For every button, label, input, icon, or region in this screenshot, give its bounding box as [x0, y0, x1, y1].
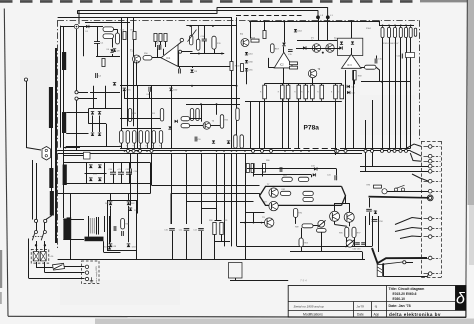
wire c4 rise273: [428, 274, 429, 277]
transformer T1 secondary winding S1: [62, 52, 66, 70]
wire J1 pin lead y166.2: [424, 166, 429, 168]
connector J1 outline top: [422, 141, 442, 143]
wire b2 h118: [120, 118, 160, 120]
junction T7T8: [322, 52, 324, 54]
P78a board outline top edge: [58, 20, 420, 22]
wire b2 h126: [190, 125, 204, 127]
junction bus x186: [185, 150, 187, 152]
op-amp IC1: [161, 45, 178, 67]
wire a3 h101: [245, 101, 342, 103]
wire J1 pin lead y228.4: [424, 228, 429, 230]
trimmer P1: [382, 189, 387, 194]
wire heavy output: [372, 248, 427, 263]
wire r80 drop: [214, 235, 216, 260]
terminal TB1 N: [85, 271, 88, 274]
wire bridge2 v88: [88, 109, 90, 124]
wire fuse a out: [36, 262, 38, 267]
connector J1 outline bottom: [422, 277, 442, 279]
wire v216 lower: [216, 153, 218, 220]
junction sense column x382.5: [382, 25, 384, 27]
wire aux v83: [83, 27, 85, 57]
wire a2 v204 tail: [204, 41, 206, 54]
wire v224 lower: [224, 153, 226, 246]
wire IC3 base to R69: [361, 67, 365, 69]
transistor T12 (power): [344, 212, 354, 222]
resistor R4: [102, 59, 105, 67]
wire divider row drop x298.8: [298, 99, 300, 149]
wire divider row top stub x335.5: [335, 84, 337, 86]
junction sense column x389: [388, 25, 390, 27]
wire b2 h104: [186, 104, 240, 106]
wire J1 pin lead y181.2: [424, 181, 429, 183]
wire sec2 tap top: [66, 112, 88, 114]
wire b3 v245: [245, 153, 247, 260]
wire J1 pin lead y236.6: [424, 236, 429, 238]
resistor R88 (pill): [303, 191, 313, 195]
P78a board outline right edge: [419, 20, 421, 141]
wire T4 to R55: [211, 125, 221, 127]
wire a2 top right: [186, 25, 236, 27]
relay K1 lever: [383, 262, 402, 264]
junction bus x285: [284, 150, 286, 152]
wire main bus upper dashes (board edge): [285, 148, 340, 150]
diode D60: [109, 202, 113, 205]
svg-text:E030-10: E030-10: [393, 297, 406, 301]
wire d62 v: [128, 193, 130, 200]
wire C9 feed: [179, 66, 181, 68]
terminal aux t2: [75, 91, 78, 94]
resistor R82 (pill): [280, 191, 290, 195]
svg-text:IC 3: IC 3: [347, 64, 352, 67]
resistor R103 (sense column pill): [399, 27, 402, 37]
wire bridge2 top: [89, 108, 123, 110]
wire b3 h169: [247, 168, 337, 170]
wire b2 v216: [216, 104, 218, 115]
capacitor C11 filter: [184, 228, 190, 230]
wire R1-R3 link: [114, 29, 118, 31]
terminal aux t3: [75, 97, 78, 100]
resistor R11: [133, 32, 136, 40]
wire secondary S3-S4 link: [63, 185, 65, 218]
wire aux t2 stub: [78, 92, 88, 94]
wire t12 em drop: [354, 238, 356, 247]
wire r80 top link: [215, 220, 222, 222]
title block divider v app col: [371, 302, 373, 317]
wire screened segment: [236, 15, 302, 17]
diode D61a: [89, 165, 93, 168]
wire IC2 apex up: [283, 47, 285, 53]
wire J1 pin lead y218.6: [424, 218, 429, 220]
wire c4 v372: [372, 216, 374, 246]
wire a3 v345: [345, 70, 347, 148]
terminal bus right x382: [381, 149, 384, 152]
wire fan y208: [201, 208, 217, 210]
capacitor C16b: [375, 59, 377, 64]
resistor R68: [353, 71, 356, 81]
svg-text:Modifications: Modifications: [303, 313, 323, 317]
junction sense column x410.7: [410, 25, 412, 27]
wire mains lead to plug: [26, 148, 41, 151]
wire b3 v253: [253, 164, 255, 177]
border left: [4, 9, 8, 317]
connector J1 pin y161.2: [428, 159, 432, 163]
resistor R36 (divider row): [320, 85, 324, 99]
wire a3 v335 long: [335, 101, 337, 155]
wire divider row top stub x298.8: [298, 84, 300, 86]
wire sec tap 155: [63, 155, 83, 157]
wire sec tap 219: [63, 219, 84, 221]
terminal bus x337.5: [336, 149, 339, 152]
wire secondary top tap: [63, 27, 65, 53]
wire row2 stub R40: [121, 143, 123, 148]
wire mains lead2 down: [32, 160, 34, 220]
wire h191: [384, 191, 429, 193]
wire v137 lower: [137, 153, 139, 213]
wire row2 stub R45: [153, 143, 155, 148]
wire c50 dn: [113, 174, 115, 184]
wire sense column stub x410.7: [410, 25, 412, 27]
relay K1 coil: [377, 265, 382, 277]
terminal bus right x372: [371, 149, 374, 152]
wire aux low h: [90, 92, 120, 94]
wire C1 top lead: [97, 27, 99, 42]
wire a2 v231c: [231, 71, 233, 149]
resistor R34 (divider row): [304, 85, 308, 99]
wire divider row stub-down x305.7: [305, 99, 307, 102]
junction sec tap 147: [65, 147, 67, 149]
capacitor C62: [355, 243, 360, 245]
wire T9 tail: [312, 78, 314, 84]
wire T12 feed: [349, 203, 351, 212]
connector J1 pin y218.6: [428, 217, 432, 221]
wire c2 v107: [107, 201, 109, 251]
connector J1 pin stub y181.2: [432, 181, 440, 183]
wire sense column stub x400.8: [400, 25, 402, 27]
wire R3 feed: [117, 29, 119, 33]
junction a3 top a: [249, 20, 251, 22]
wire c2 bridge bottom: [107, 250, 137, 252]
wire mains lead down: [26, 81, 28, 147]
wire divider row drop x288.1: [288, 99, 290, 149]
wire r81 h: [215, 241, 231, 243]
wire top-left terminal riser: [77, 10, 79, 14]
resistor R80: [213, 223, 216, 235]
wire main bus upper right: [340, 148, 411, 150]
resistor R51 (pill): [160, 109, 163, 122]
terminal bus right x389: [388, 149, 391, 152]
junction a2 h86 b: [236, 85, 238, 87]
wire fan y193: [171, 193, 260, 195]
title block divider v date col: [353, 302, 355, 317]
border top gray segment right: [420, 0, 467, 2]
terminal bus x262: [261, 149, 264, 152]
wire IC1 base v: [178, 52, 180, 67]
wire a2 v231: [231, 17, 233, 61]
wire aux supply top: [61, 26, 103, 28]
wire fan y193 elbow: [170, 193, 172, 224]
diode D41: [339, 46, 342, 49]
terminal primary out: [44, 219, 47, 222]
resistor R14: [164, 34, 167, 42]
diode D45: [347, 85, 350, 88]
wire left sense drop to terminal: [78, 10, 80, 24]
wire bridge mid: [85, 173, 107, 175]
wire vert a2-1: [121, 17, 123, 148]
transistor T1: [133, 55, 141, 63]
terminal TB1 E: [85, 277, 88, 280]
capacitor C51: [118, 172, 124, 174]
resistor R32 (divider row): [286, 85, 290, 99]
wire primary link: [51, 128, 53, 168]
connector J1 outline left: [421, 141, 423, 278]
wire J1 pin lead y191.2: [424, 191, 429, 193]
wire d60 v: [110, 193, 112, 200]
svg-text:R105 R106 R107: R105 R106 R107: [383, 43, 399, 45]
wire zig pin3: [410, 153, 421, 161]
diode D20: [169, 88, 172, 91]
wire a2 v236: [236, 17, 238, 148]
capacitor C14: [158, 45, 160, 50]
scan mottle patch d: [60, 280, 180, 305]
capacitor C58: [372, 220, 378, 222]
transformer T1 core line left: [55, 48, 57, 243]
wire divider row top stub x312.4: [312, 84, 314, 86]
junction a4 h82: [381, 81, 383, 83]
diode D63: [127, 244, 131, 247]
capacitor C41: [335, 175, 337, 180]
wire D6 feed: [112, 39, 114, 48]
border bottom: [8, 316, 466, 317]
wire a2 h66: [178, 66, 232, 68]
wire C16b feed: [376, 56, 378, 59]
ground symbol earth: [90, 277, 93, 282]
svg-text:Date: Jan ’78: Date: Jan ’78: [389, 304, 411, 308]
wire t2 right down: [103, 241, 105, 252]
wire IC2 base left: [268, 58, 270, 68]
connector J1 pin heavy ring: [427, 195, 433, 201]
junction bus x293: [292, 150, 294, 152]
transformer T2 core b: [98, 217, 100, 235]
terminal bus x271: [270, 149, 273, 152]
terminal bus x253: [252, 149, 255, 152]
connector J1 pin heavy: [429, 196, 432, 199]
connector J1 pin stub y171.3: [432, 171, 440, 173]
connector J1 pin stub y161.2: [432, 161, 440, 163]
wire v186 lower: [186, 153, 188, 224]
resistor R102 (sense column pill): [394, 27, 397, 37]
wire D34 feed: [284, 21, 286, 42]
resistor R71: [290, 66, 298, 69]
resistor row2 pill R45: [152, 131, 155, 144]
wire c11 drop: [186, 231, 188, 260]
transformer T1 secondary winding S3: [63, 165, 67, 186]
wire c1 v104: [104, 216, 106, 232]
resistor R24: [251, 39, 259, 42]
switch S1 tie bar: [32, 236, 41, 238]
junction collector bus x261.5: [261, 222, 263, 224]
wire top sense lower: [78, 13, 218, 15]
wire fuse b out: [44, 262, 46, 273]
wire t11 to pill: [335, 225, 347, 227]
connector J1 pin y258.0: [428, 256, 432, 260]
wire C4 loop left: [157, 49, 159, 58]
wire output bus: [237, 246, 372, 248]
wire zig out1: [395, 218, 422, 225]
resistor R17 (pill): [197, 39, 200, 50]
wire c2 bridge vright: [128, 208, 130, 242]
wire R13 lead: [160, 42, 162, 46]
transistor T8b (driver): [269, 201, 278, 210]
wire a3 v250: [250, 21, 252, 38]
resistor R96e (emitter pill): [345, 227, 349, 237]
title block outer frame: [288, 286, 466, 318]
wire R12 lead: [155, 42, 157, 48]
transistor T9: [308, 69, 316, 77]
wire R14 lead: [165, 42, 167, 48]
resistor R94 (pill): [299, 238, 303, 247]
junction a3 top c: [283, 20, 285, 22]
wire sw b: [44, 223, 46, 231]
wire sec tap 239: [63, 239, 84, 241]
wire sense column stub x395: [395, 25, 397, 27]
trimmer P3: [346, 240, 355, 247]
diode D62: [127, 202, 131, 205]
resistor R105 (sense column pill): [409, 27, 412, 37]
wire divider row drop x264.6: [264, 99, 266, 149]
resistor R69 (pill): [365, 65, 377, 69]
capacitor C6: [195, 137, 197, 142]
junction b2 h104 b: [216, 103, 218, 105]
wire b2 v201: [201, 104, 203, 121]
svg-text:App: App: [374, 313, 380, 317]
wire divider row top stub x341.8: [341, 84, 343, 86]
wire a2 v204 stub: [204, 26, 206, 39]
resistor R59 (pill): [240, 135, 243, 148]
wire row2 stub R42: [134, 143, 136, 148]
diode D55b: [98, 111, 101, 114]
trimmer P1 arrow: [188, 30, 197, 42]
diode D40: [303, 46, 306, 49]
wire v171 lower: [171, 153, 173, 224]
wire main bus middle: [58, 150, 411, 152]
wire fan y213: [245, 212, 265, 214]
junction b2 h104 a: [200, 103, 202, 105]
wire C40a tail: [149, 92, 151, 99]
connector J1 pin stub y228.4: [432, 228, 440, 230]
wire bridge v88: [86, 163, 88, 184]
junction bus x201: [200, 150, 202, 152]
connector J1 pin y236.6: [428, 235, 432, 239]
wire R89 to P2: [313, 225, 318, 227]
diode clamp box: [338, 38, 363, 55]
wire a4 v372: [372, 100, 374, 166]
diode D55a: [91, 111, 94, 114]
connector J1 pin y156.2: [428, 154, 432, 158]
diode D6: [110, 49, 113, 52]
wire c52 up: [129, 163, 131, 172]
wire sec tap 147: [63, 147, 80, 149]
connector J1 pin stub y146.5: [432, 146, 440, 148]
wire divider row top stub x282.3: [282, 84, 284, 86]
wire row2 stub R43: [140, 143, 142, 148]
wire C4 loop right: [163, 49, 165, 55]
wire aux v93 drop: [93, 86, 95, 109]
junction bus x231.5: [231, 150, 233, 152]
resistor row2 pill R46: [159, 131, 162, 144]
title block divider h date row: [386, 301, 455, 303]
wire T11 feed: [334, 203, 336, 211]
switch S1 pole a: [32, 231, 37, 241]
wire C1 bottom lead: [97, 44, 99, 57]
wire b3 v311: [311, 175, 313, 177]
wire b2 h121b: [190, 118, 201, 120]
connector J1 outline right: [441, 141, 443, 278]
wire h196 heavy: [369, 197, 429, 198]
junction bus x224: [223, 150, 225, 152]
scan mottle patch a: [20, 60, 50, 120]
zener D38: [129, 208, 132, 211]
wire row2 top link: [121, 128, 161, 130]
wire bridge2 v92: [92, 116, 94, 133]
svg-text:δ: δ: [456, 291, 466, 308]
wire bridge2 v106: [106, 124, 108, 147]
pin L1: [326, 15, 330, 19]
wire c10 drop: [172, 231, 174, 260]
wire aux mid: [96, 56, 120, 58]
wire vert a2-3: [133, 17, 135, 126]
wire R17 stub: [198, 26, 200, 39]
wire c12 drop: [201, 231, 203, 260]
resistor R98: [246, 164, 249, 173]
wire bridge2 bottom: [66, 146, 122, 148]
resistor R104 (sense column pill): [405, 27, 408, 37]
wire R92 drop: [295, 217, 297, 224]
transformer T2 winding horizontal: [85, 237, 104, 242]
svg-text:E015-20 E060-6: E015-20 E060-6: [393, 292, 417, 296]
resistor R37 (divider row): [334, 85, 338, 99]
capacitor C20 box: [406, 53, 415, 58]
wire sense column drop x400.8: [400, 38, 402, 149]
junction sense column x406: [405, 25, 407, 27]
wire plug to primary top: [51, 87, 53, 147]
wire c2 bridge top: [107, 200, 137, 202]
junction bus x301: [300, 150, 302, 152]
trimmer P1 (pill): [190, 35, 193, 45]
diode D23: [175, 120, 178, 123]
relay contact: [403, 261, 406, 264]
terminal board pin x335: [334, 149, 337, 152]
wire c3 h251: [290, 251, 362, 253]
scan mottle patch c: [360, 95, 415, 135]
transformer T1 primary winding upper: [49, 87, 53, 128]
svg-text:Title: Circuit diagram: Title: Circuit diagram: [389, 287, 425, 291]
wire a4 h82: [361, 81, 411, 83]
wire a3 v353: [353, 70, 355, 148]
wire v130: [130, 153, 132, 168]
junction sense column x395: [394, 25, 396, 27]
wire IC3 apex up: [351, 48, 353, 54]
wire sense column drop x382.5: [382, 38, 384, 149]
diode D58: [108, 246, 111, 249]
wire main bus upper left: [120, 148, 285, 150]
connector J1 pin y166.2: [428, 164, 432, 168]
wire a2 v171: [171, 86, 173, 149]
connector mains plug: [42, 147, 51, 161]
transistor T9b (driver): [265, 218, 274, 227]
resistor R13: [159, 34, 162, 42]
wire v201 lower: [201, 153, 203, 224]
wire r81 drop: [221, 235, 223, 242]
